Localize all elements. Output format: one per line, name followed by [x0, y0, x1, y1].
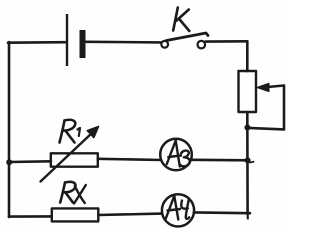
wire wiper return right vertical [283, 86, 286, 130]
resistor RX body [52, 208, 99, 221]
rheostat wiper arrowhead [257, 83, 269, 91]
wire left vertical [8, 42, 11, 217]
junction right node row1 [245, 157, 251, 163]
switch K blade [167, 33, 209, 41]
wire bottom from corner to RX [9, 215, 52, 218]
label A4 inside ammeter [166, 196, 189, 220]
junction squiggle mark [250, 161, 254, 164]
wire A4 to right vertical [194, 211, 250, 214]
wire A3 to right vertical [191, 159, 247, 162]
wire right vertical rheostat to bottom [246, 112, 249, 213]
wire top-left from corner to battery [8, 41, 65, 44]
junction rheostat bottom [244, 125, 250, 131]
resistor R1 arrow shaft [41, 133, 93, 182]
rheostat wiper arrow shaft [268, 86, 285, 88]
ammeter A3 body [160, 139, 192, 171]
wire switch to top-right corner [206, 40, 248, 43]
wire wiper return horizontal [248, 128, 284, 129]
label RX [60, 182, 86, 204]
ammeter A4 body [162, 194, 194, 226]
label R1 [60, 120, 81, 143]
wire R1 to A3 [98, 159, 162, 160]
battery GB1 short thick plate [80, 30, 86, 58]
wire battery to switch [86, 40, 161, 43]
resistor R1 arrowhead [87, 127, 98, 138]
wire right bottom overshoot [247, 213, 249, 218]
label K [173, 8, 189, 32]
resistor R1 body [51, 153, 98, 166]
label A3 inside ammeter [167, 141, 190, 167]
junction left node row1 [6, 159, 12, 165]
rheostat R body [239, 71, 257, 112]
switch K left terminal [161, 41, 168, 48]
wire RX to A4 [98, 214, 162, 215]
battery GB1 long plate [66, 14, 68, 66]
switch K right terminal [198, 41, 206, 49]
wire left node to R1 [9, 160, 51, 163]
wire top-right vertical down to rheostat [246, 41, 249, 71]
